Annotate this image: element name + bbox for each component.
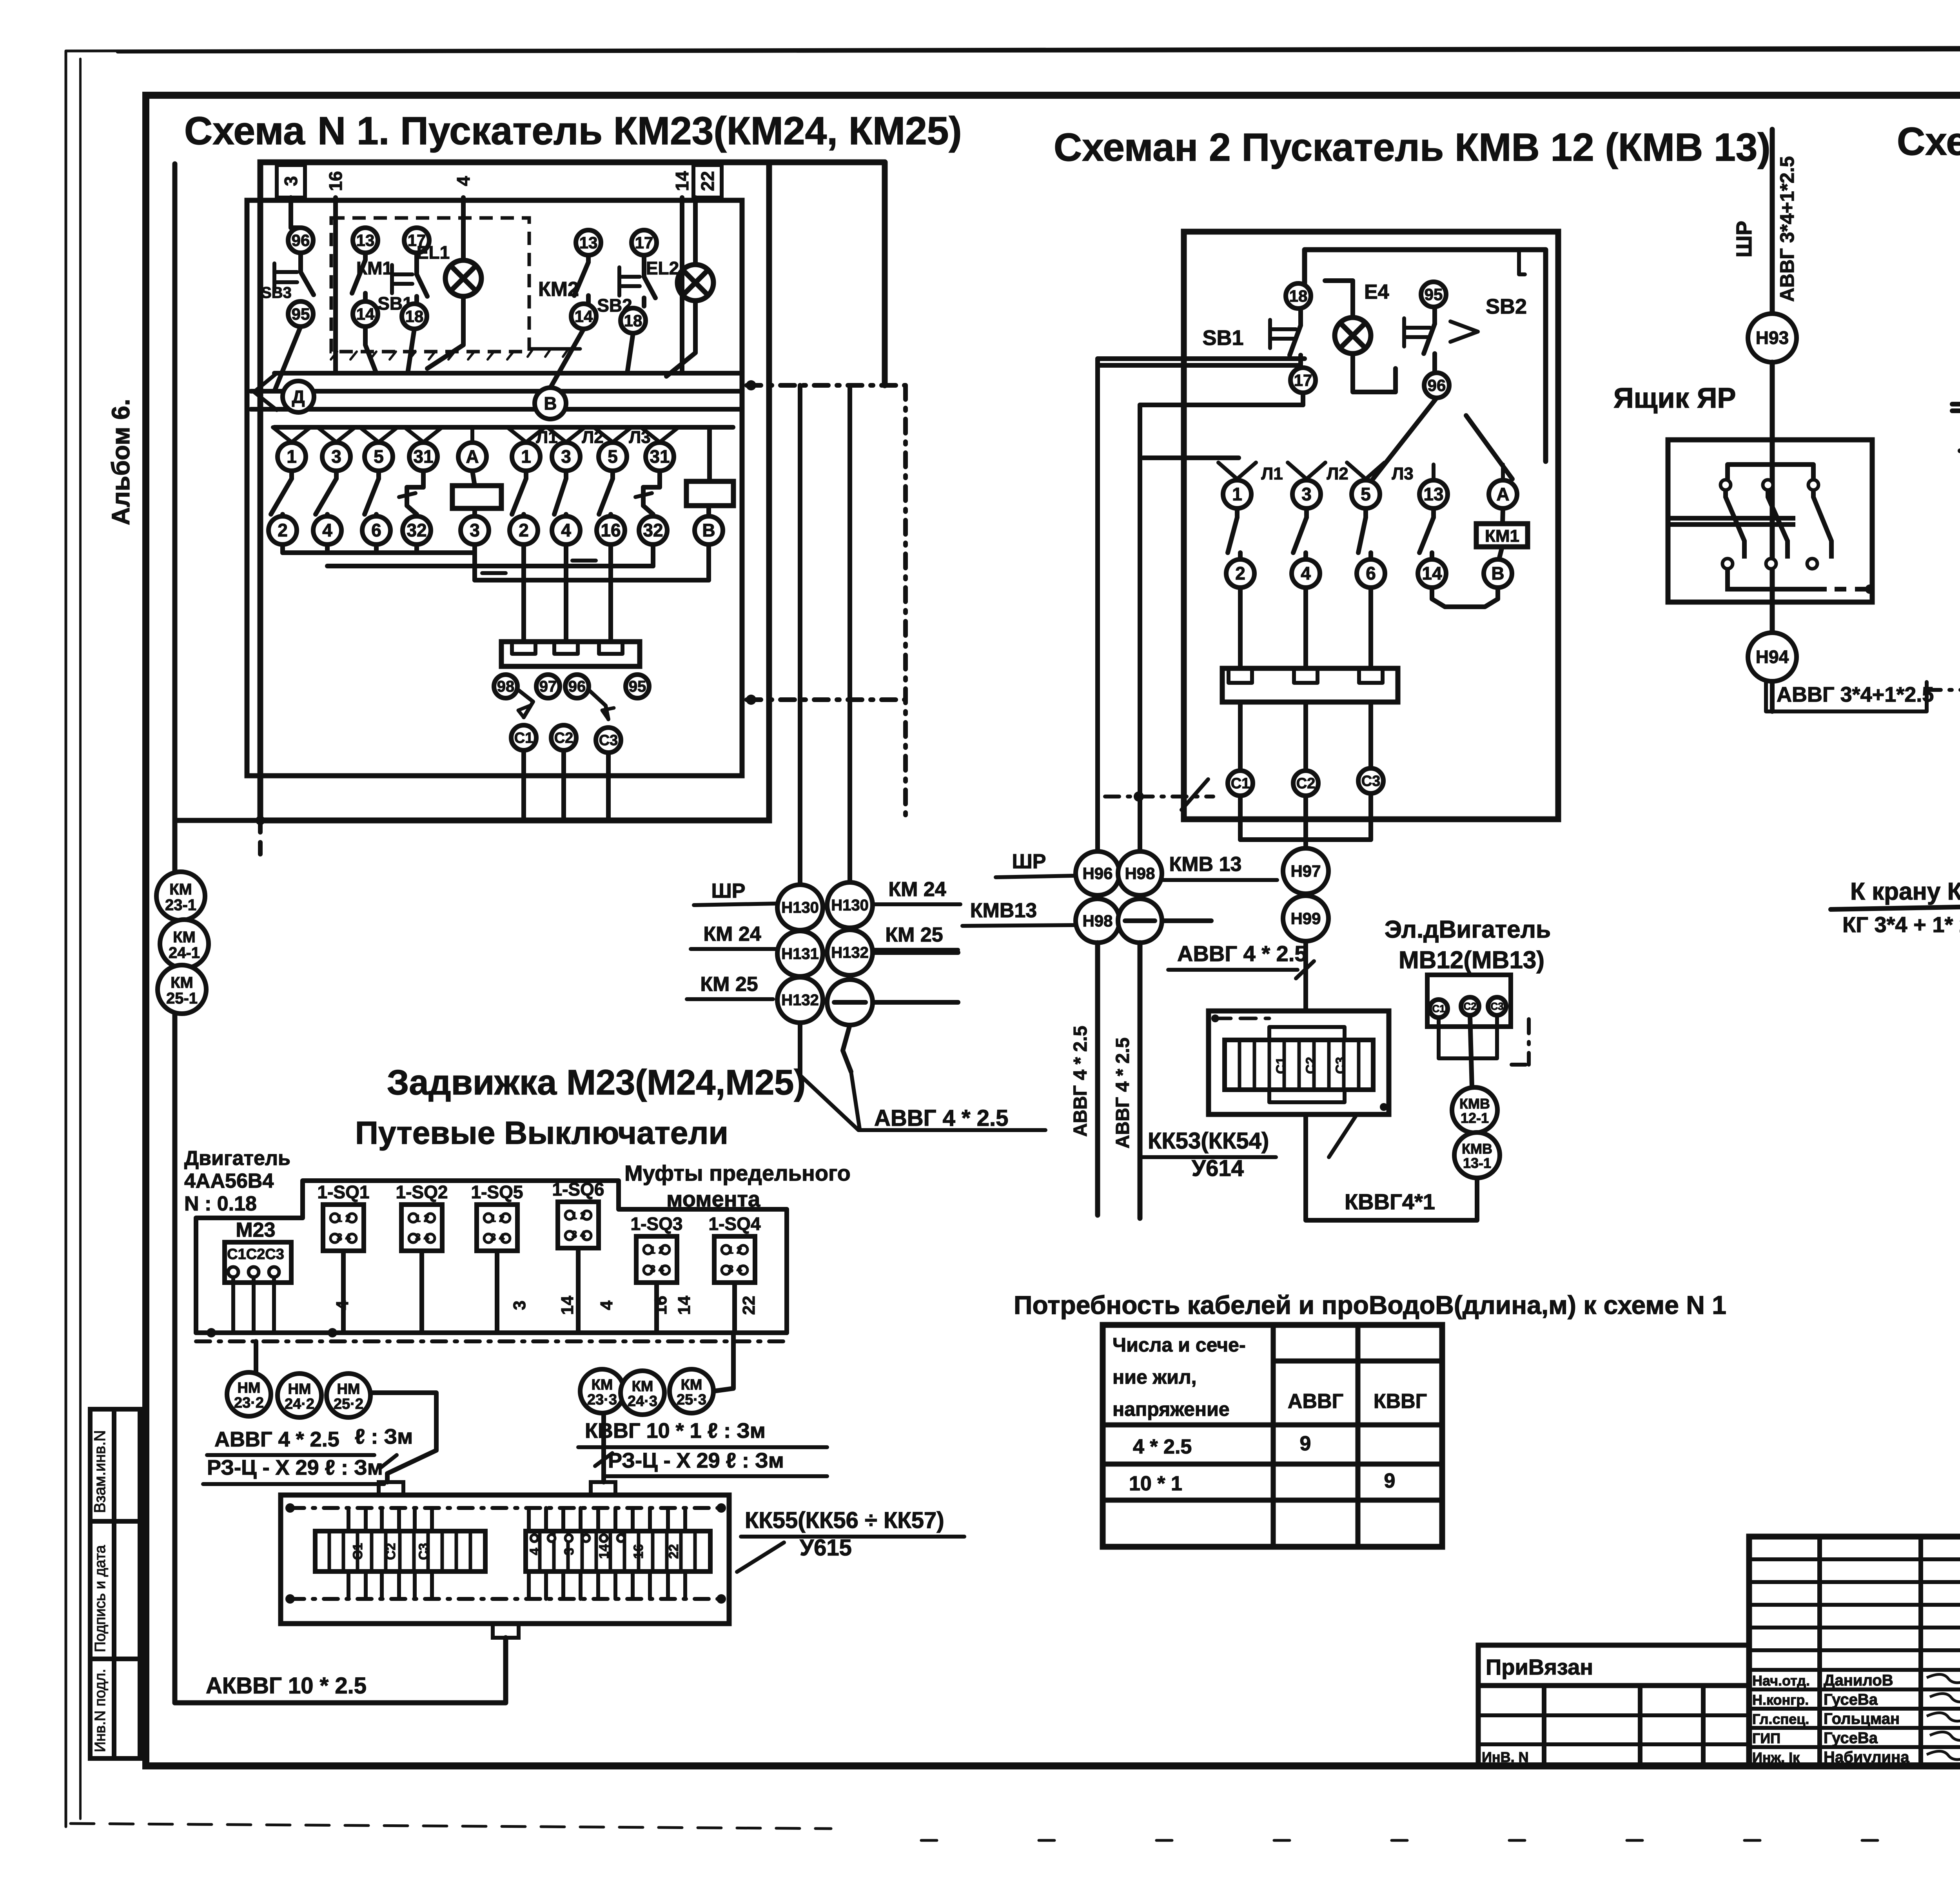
node С1 — [1430, 1000, 1448, 1018]
svg-text:КК53(КК54): КК53(КК54) — [1148, 1128, 1269, 1154]
svg-text:4: 4 — [737, 1263, 742, 1275]
wire — [1301, 393, 1305, 405]
svg-text:31: 31 — [650, 446, 670, 467]
svg-text:КМ: КМ — [592, 1377, 613, 1393]
contact blade — [564, 471, 568, 479]
node 3 — [322, 443, 350, 471]
svg-text:Гольцман: Гольцман — [1824, 1710, 1900, 1727]
box ЯР — [1668, 440, 1872, 602]
cable drop right — [601, 1414, 606, 1482]
svg-text:С3: С3 — [1333, 1057, 1348, 1074]
svg-text:EL1: EL1 — [417, 242, 450, 263]
node Н132 — [827, 930, 873, 975]
push button SB2 — [642, 255, 646, 277]
svg-text:Е4: Е4 — [1364, 281, 1389, 303]
svg-text:4: 4 — [597, 1300, 616, 1310]
node А — [458, 443, 486, 471]
wire fork — [641, 427, 660, 442]
svg-text:6: 6 — [371, 520, 381, 541]
svg-text:25·2: 25·2 — [334, 1396, 363, 1412]
svg-text:КК55(КК56 ÷ КК57): КК55(КК56 ÷ КК57) — [745, 1508, 944, 1533]
svg-text:2: 2 — [278, 520, 288, 541]
svg-text:Н93: Н93 — [1756, 328, 1789, 348]
terminal tag 3 — [277, 165, 305, 198]
svg-text:24·2: 24·2 — [285, 1396, 314, 1412]
wire fork — [470, 427, 474, 442]
node С1 — [1228, 771, 1253, 796]
thermal release contact — [643, 471, 660, 514]
node 5 — [1352, 480, 1380, 508]
svg-text:32: 32 — [643, 520, 663, 541]
svg-text:4: 4 — [527, 1548, 542, 1555]
lamp EL2 — [677, 265, 713, 301]
node НМ24·2 — [278, 1374, 321, 1417]
node 4 — [313, 516, 341, 544]
svg-text:КМ: КМ — [169, 881, 192, 898]
bus — [327, 564, 653, 568]
svg-text:4: 4 — [580, 1228, 586, 1240]
node 96 — [288, 228, 313, 253]
svg-text:ДанилоВ: ДанилоВ — [1824, 1672, 1893, 1689]
svg-text:3: 3 — [331, 446, 341, 467]
svg-text:2: 2 — [659, 1244, 664, 1256]
svg-text:1-SQ3: 1-SQ3 — [631, 1214, 683, 1234]
svg-text:25-1: 25-1 — [166, 990, 198, 1007]
contact blade — [1235, 508, 1240, 517]
contactor coil KM1 — [472, 471, 475, 486]
thermal release contact — [407, 471, 423, 514]
svg-text:1: 1 — [490, 1212, 496, 1224]
NC contact — [590, 691, 608, 719]
wire fork — [1288, 463, 1307, 479]
svg-text:М23: М23 — [236, 1219, 275, 1241]
cable leader — [800, 1075, 858, 1130]
svg-text:ГусеВа: ГусеВа — [1824, 1729, 1878, 1747]
node КМ25·3 — [670, 1369, 713, 1413]
contact blade — [1431, 508, 1436, 517]
wire — [291, 198, 301, 228]
node С2 — [1293, 771, 1318, 796]
svg-text:Д: Д — [292, 386, 305, 407]
node 2 — [1226, 559, 1254, 588]
svg-text:ШР: ШР — [1731, 221, 1756, 258]
node 4 — [552, 516, 580, 544]
svg-text:Н.конгр.: Н.конгр. — [1752, 1692, 1809, 1708]
wire dash-dot — [1527, 1019, 1531, 1065]
svg-text:Н131: Н131 — [781, 945, 819, 963]
node А — [1489, 480, 1517, 508]
wire — [606, 753, 611, 820]
svg-text:Н130: Н130 — [781, 899, 819, 916]
svg-text:24-1: 24-1 — [169, 944, 200, 962]
node 18 — [1286, 283, 1311, 308]
svg-text:Схема н3 Пускатель КМ: Схема н3 Пускатель КМ — [1897, 120, 1960, 163]
svg-text:С1: С1 — [350, 1543, 365, 1560]
svg-text:4: 4 — [345, 1231, 351, 1243]
svg-text:2: 2 — [580, 1210, 586, 1221]
wire — [550, 329, 584, 388]
svg-text:У614: У614 — [1192, 1156, 1244, 1181]
svg-text:4: 4 — [499, 1231, 505, 1243]
node 6 — [362, 516, 390, 544]
node Н97 — [1283, 848, 1328, 894]
svg-text:1-SQ1: 1-SQ1 — [318, 1182, 370, 1202]
wire fork — [360, 427, 379, 442]
terminal tag 22 — [693, 165, 722, 198]
svg-text:4 * 2.5: 4 * 2.5 — [1133, 1435, 1192, 1458]
inner box — [1305, 250, 1546, 461]
bottom bus — [1728, 569, 1827, 589]
svg-text:КГ 3*4 + 1* 2.5: КГ 3*4 + 1* 2.5 — [1842, 912, 1960, 937]
svg-text:Двигатель: Двигатель — [184, 1147, 290, 1170]
svg-text:13-1: 13-1 — [1463, 1155, 1491, 1171]
svg-text:16: 16 — [651, 1296, 670, 1315]
svg-text:96: 96 — [568, 678, 586, 695]
svg-text:18: 18 — [624, 311, 642, 330]
svg-text:31: 31 — [413, 446, 433, 467]
svg-text:5: 5 — [374, 446, 384, 467]
wire fork — [547, 427, 566, 442]
wire fork — [594, 427, 613, 442]
svg-text:КМВ: КМВ — [1462, 1141, 1492, 1157]
wire — [1372, 398, 1437, 480]
node 3 — [461, 516, 489, 544]
wire — [713, 1335, 733, 1391]
node КМВ12-1 — [1452, 1087, 1497, 1133]
svg-text:Н132: Н132 — [831, 944, 869, 962]
bottom outer line — [175, 818, 769, 823]
node С2 — [551, 725, 576, 750]
push button SB1 — [414, 253, 419, 274]
contactor coil КМ1 — [1503, 508, 1503, 524]
terminal strip КК55 — [281, 1495, 729, 1624]
svg-text:1: 1 — [728, 1244, 733, 1256]
node 97 — [536, 675, 560, 698]
svg-text:Н99: Н99 — [1290, 909, 1321, 927]
wire — [843, 1025, 851, 1072]
node Н98 — [1076, 899, 1120, 943]
svg-text:97: 97 — [539, 678, 557, 695]
svg-text:17: 17 — [635, 233, 653, 252]
contact blade — [524, 471, 528, 479]
wire — [848, 385, 852, 882]
svg-text:В: В — [1491, 563, 1504, 584]
node 6 — [1357, 559, 1385, 588]
wire — [798, 1023, 802, 1075]
svg-text:23-1: 23-1 — [165, 896, 196, 914]
svg-text:КМ 25: КМ 25 — [700, 973, 758, 996]
node 13 — [576, 230, 601, 255]
svg-text:КМ1: КМ1 — [1485, 526, 1519, 546]
thermal relay heaters — [1222, 668, 1398, 702]
wire — [495, 1251, 499, 1333]
wire — [1303, 943, 1308, 1011]
svg-text:Альбом 6.: Альбом 6. — [107, 399, 135, 526]
wire — [254, 1341, 258, 1373]
svg-text:С2: С2 — [1463, 1000, 1476, 1012]
svg-text:напряжение: напряжение — [1112, 1398, 1230, 1420]
svg-text:КМ: КМ — [171, 974, 193, 991]
thermal relay KK heaters — [501, 642, 640, 666]
svg-text:АВВГ 4 * 2.5: АВВГ 4 * 2.5 — [1070, 1026, 1091, 1137]
node 2 — [510, 516, 538, 544]
svg-text:С1: С1 — [1432, 1003, 1445, 1014]
lamp Е4 — [1335, 318, 1371, 354]
svg-text:18: 18 — [1289, 287, 1308, 305]
svg-text:95: 95 — [1425, 285, 1443, 303]
wire fork — [273, 427, 292, 442]
node 32 — [403, 516, 431, 544]
node КМ24·3 — [621, 1371, 664, 1415]
wire — [798, 385, 802, 884]
wire — [333, 198, 338, 373]
bus — [196, 1330, 787, 1335]
wire — [561, 751, 566, 820]
svg-text:14: 14 — [575, 307, 593, 325]
svg-text:РЗ-Ц - Х 29 ℓ : Зм: РЗ-Ц - Х 29 ℓ : Зм — [207, 1456, 383, 1479]
node КМ23-1 — [156, 872, 205, 920]
svg-text:КМ: КМ — [632, 1378, 653, 1395]
привязан box — [1478, 1645, 1749, 1686]
node НМ25·2 — [327, 1374, 370, 1417]
svg-text:N 1. Пускатель КМ23(КМ24, КМ: N 1. Пускатель КМ23(КМ24, КМ25) — [318, 109, 962, 153]
svg-text:12-1: 12-1 — [1461, 1110, 1489, 1126]
bus — [1952, 408, 1960, 413]
node 96 — [1424, 373, 1449, 398]
node 1 — [1223, 480, 1251, 508]
contact bottom circles — [1722, 559, 1733, 569]
wire — [419, 1251, 424, 1333]
svg-text:3: 3 — [470, 520, 480, 541]
node 4 — [1292, 559, 1320, 588]
cell block left — [315, 1531, 485, 1571]
node КМ24-1 — [160, 920, 209, 968]
svg-text:ГусеВа: ГусеВа — [1824, 1691, 1878, 1708]
node 96 — [565, 675, 589, 698]
wire dash-dot — [903, 385, 908, 820]
wire — [231, 1277, 235, 1333]
svg-text:4: 4 — [453, 176, 474, 186]
node Н93 — [1748, 314, 1797, 362]
lamp EL1 wires — [461, 198, 466, 260]
svg-text:22: 22 — [739, 1296, 759, 1315]
svg-text:16: 16 — [601, 520, 621, 541]
svg-text:Н97: Н97 — [1290, 862, 1321, 880]
svg-text:14: 14 — [1422, 563, 1442, 584]
svg-text:Схема: Схема — [184, 109, 305, 153]
svg-text:2: 2 — [737, 1244, 742, 1256]
node Н96 — [1076, 851, 1120, 895]
svg-text:С1С2С3: С1С2С3 — [227, 1246, 284, 1263]
short dash — [258, 820, 263, 862]
svg-text:С3: С3 — [416, 1543, 431, 1560]
wire АВВГ down — [1095, 943, 1100, 1215]
svg-text:КМ 25: КМ 25 — [885, 924, 943, 946]
bus — [1098, 363, 1298, 368]
bus dash-dot — [290, 1597, 721, 1601]
svg-text:Ящик ЯР: Ящик ЯР — [1613, 383, 1736, 414]
left stamp box Подпись и дата — [90, 1521, 140, 1659]
wire — [1368, 702, 1373, 769]
node blank — [827, 980, 873, 1025]
wire — [627, 333, 633, 373]
svg-text:Инж. Iк: Инж. Iк — [1752, 1749, 1800, 1766]
svg-text:13: 13 — [356, 231, 375, 249]
svg-text:Эл.дВигатель: Эл.дВигатель — [1385, 916, 1551, 943]
node Д — [283, 381, 314, 412]
svg-text:С2: С2 — [1303, 1057, 1318, 1074]
wire — [365, 327, 376, 373]
wire КВВГ4x1 — [1306, 1114, 1477, 1220]
svg-text:АВВГ 4 * 2.5: АВВГ 4 * 2.5 — [214, 1428, 339, 1451]
svg-text:6: 6 — [1366, 563, 1376, 584]
node 1 — [278, 443, 306, 471]
cable gland — [493, 1624, 519, 1638]
node 14 — [353, 301, 378, 327]
svg-text:5: 5 — [608, 446, 618, 467]
svg-text:С3: С3 — [1361, 773, 1381, 789]
node 3 — [1292, 480, 1321, 508]
svg-text:14: 14 — [597, 1544, 612, 1559]
node С3 — [1488, 997, 1506, 1015]
bus — [1143, 455, 1239, 460]
svg-text:16: 16 — [631, 1544, 646, 1559]
wire — [1238, 702, 1243, 769]
svg-text:3: 3 — [572, 1228, 577, 1240]
node 95 — [1421, 282, 1446, 307]
wire — [1138, 405, 1142, 851]
svg-text:Муфты предельного: Муфты предельного — [624, 1161, 851, 1185]
wire — [576, 1248, 581, 1333]
node Н130 — [777, 885, 823, 930]
svg-text:МВ12(МВ13): МВ12(МВ13) — [1399, 947, 1544, 974]
bus in ЯР — [1728, 465, 1813, 480]
node 95 — [288, 301, 313, 327]
bus — [280, 544, 285, 553]
cell block right — [526, 1531, 710, 1571]
svg-text:5: 5 — [1361, 484, 1371, 504]
bus lines — [1668, 516, 1795, 521]
node 3 — [552, 443, 580, 471]
title block — [1749, 1537, 1960, 1766]
dashed hatch enclosure — [331, 218, 529, 352]
cable table — [1103, 1325, 1442, 1547]
svg-text:АКВВГ 10 * 2.5: АКВВГ 10 * 2.5 — [206, 1673, 367, 1698]
svg-text:С1: С1 — [514, 730, 534, 746]
node 14 — [1418, 559, 1446, 588]
wire — [1303, 702, 1308, 769]
node С2 — [1461, 997, 1479, 1015]
svg-text:4: 4 — [659, 1263, 664, 1275]
node 31 — [646, 443, 674, 471]
node 14 — [571, 304, 596, 329]
wire — [1519, 250, 1525, 274]
svg-text:С2: С2 — [383, 1543, 398, 1560]
svg-text:13: 13 — [1423, 484, 1443, 504]
node Н132 — [777, 977, 823, 1023]
svg-text:96: 96 — [292, 231, 310, 249]
svg-text:23·2: 23·2 — [234, 1395, 264, 1411]
svg-text:22: 22 — [697, 171, 718, 191]
wire — [408, 329, 414, 373]
svg-text:Набиулина: Набиулина — [1824, 1749, 1909, 1766]
svg-text:С2: С2 — [1296, 775, 1316, 792]
wire fork — [405, 427, 423, 442]
node НМ23·2 — [227, 1372, 271, 1416]
svg-text:1: 1 — [415, 1212, 421, 1224]
svg-text:КМ1: КМ1 — [356, 258, 392, 278]
svg-text:2: 2 — [1235, 563, 1245, 584]
svg-text:КМВ: КМВ — [1459, 1096, 1490, 1112]
svg-text:1-SQ4: 1-SQ4 — [709, 1214, 761, 1234]
contact blade — [1363, 508, 1368, 517]
node 98 — [494, 675, 517, 698]
wire — [274, 327, 301, 391]
node В — [535, 388, 566, 419]
svg-text:КВВГ4*1: КВВГ4*1 — [1345, 1189, 1435, 1214]
wires to heaters — [1238, 588, 1243, 668]
svg-text:АВВГ 4 * 2.5: АВВГ 4 * 2.5 — [1177, 941, 1307, 966]
svg-text:22: 22 — [666, 1544, 681, 1559]
svg-text:А: А — [466, 446, 479, 467]
node 32 — [639, 516, 667, 544]
svg-text:Л1: Л1 — [1261, 464, 1283, 483]
wire fork — [318, 427, 336, 442]
left stamp box Инв.N подл. — [90, 1659, 140, 1758]
enclosure box 1 — [260, 162, 769, 820]
node С3 — [596, 728, 621, 753]
bus dash-dot — [196, 1339, 787, 1343]
svg-text:3: 3 — [1301, 484, 1312, 504]
svg-text:КМ2: КМ2 — [538, 278, 579, 301]
contact KM2 — [586, 255, 591, 262]
svg-text:Подпись и дата: Подпись и дата — [92, 1545, 109, 1652]
bus — [1952, 402, 1960, 406]
svg-text:32: 32 — [407, 520, 426, 541]
motor terminal box — [1427, 975, 1511, 1027]
svg-text:EL2: EL2 — [646, 258, 679, 278]
svg-text:В: В — [544, 393, 557, 414]
svg-text:14: 14 — [558, 1296, 577, 1315]
contact KM1 — [363, 253, 368, 260]
enclosure box 2 — [247, 200, 742, 776]
svg-text:24·3: 24·3 — [628, 1393, 657, 1410]
node blank — [1118, 899, 1162, 943]
svg-text:3: 3 — [415, 1231, 421, 1243]
svg-text:В: В — [702, 520, 715, 541]
svg-text:Н94: Н94 — [1756, 647, 1789, 667]
left stamp box Взам.инв.N — [90, 1409, 140, 1521]
svg-text:Инв.N подл.: Инв.N подл. — [92, 1669, 109, 1752]
contact blade — [610, 471, 615, 479]
cable drop left — [370, 1393, 436, 1482]
svg-text:1-SQ5: 1-SQ5 — [471, 1182, 523, 1202]
svg-text:ШР: ШР — [1012, 850, 1046, 873]
svg-text:КМ: КМ — [173, 929, 196, 946]
node Н99 — [1283, 896, 1328, 941]
svg-text:Н132: Н132 — [781, 992, 819, 1009]
wire — [1770, 362, 1775, 633]
svg-text:Путевые Выключатели: Путевые Выключатели — [355, 1115, 728, 1151]
svg-text:1: 1 — [650, 1244, 655, 1256]
svg-text:1: 1 — [1232, 484, 1242, 504]
svg-text:N : 0.18: N : 0.18 — [184, 1192, 257, 1215]
svg-text:1: 1 — [337, 1212, 342, 1224]
svg-text:А: А — [1496, 484, 1509, 504]
svg-text:К крану К: К крану К — [1850, 878, 1960, 905]
wire — [172, 164, 178, 873]
node 18 — [402, 304, 427, 329]
